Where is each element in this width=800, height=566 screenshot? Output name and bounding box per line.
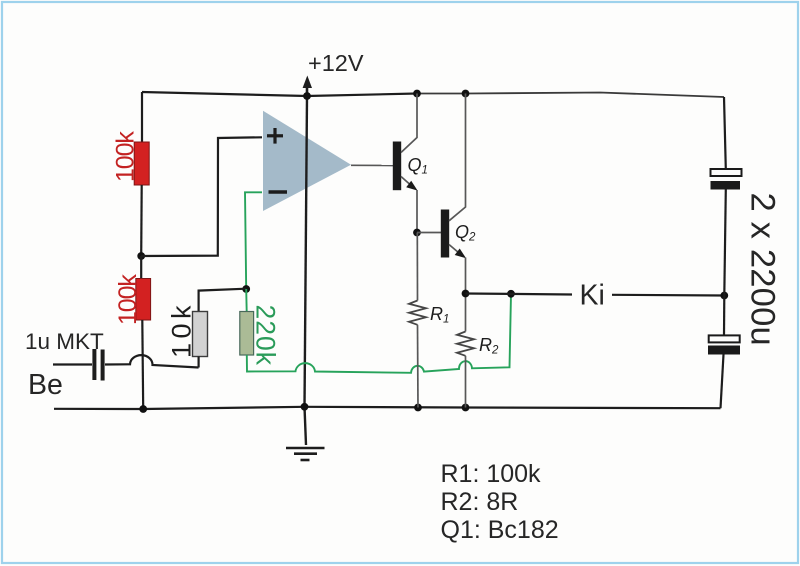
svg-text:220k: 220k	[251, 305, 281, 366]
resistor R2 zigzag	[457, 332, 474, 356]
op-amp U1	[263, 111, 351, 211]
wire: cap C1 to mid node	[724, 190, 726, 296]
ground	[286, 448, 325, 460]
node: bottom rail / ground	[301, 403, 309, 411]
node: junction between 100k resistors	[137, 252, 145, 260]
wire: left vertical from rail to R100k#1	[141, 92, 143, 142]
wire: Q2 base	[417, 232, 441, 234]
svg-text:R1: R1	[430, 304, 449, 326]
wire: R2 bottom lead	[465, 356, 467, 408]
resistor 100k (lower) body	[136, 279, 151, 321]
wire: R1 bottom lead	[417, 325, 420, 408]
wire: green 220k bottom, hops over grounds, up to Ki node	[247, 294, 511, 373]
wire: green node A to 220k top	[245, 289, 248, 312]
wire: junction down to R100k#2	[140, 256, 142, 279]
svg-text:Q2: Q2	[455, 222, 476, 244]
op-amp - sign	[269, 190, 288, 193]
resistor 220k body	[240, 312, 254, 356]
wire: top-right corner down to cap C1	[724, 97, 726, 169]
svg-text:R2: R2	[479, 335, 499, 357]
node: green wire junction	[507, 290, 515, 298]
svg-text:10k: 10k	[167, 301, 197, 358]
svg-text:R1: 100k: R1: 100k	[441, 460, 542, 488]
wire: cap C2 to bottom rail	[721, 355, 724, 409]
capacitor 2200u (lower)	[708, 335, 740, 354]
transistor Q2	[441, 94, 466, 294]
node: bottom rail / R2	[462, 404, 470, 412]
node: Q2 emitter / R2 / Ki	[462, 290, 470, 298]
label parts list	[441, 460, 559, 544]
power +12V arrow	[303, 76, 312, 97]
resistor R1 zigzag	[409, 301, 426, 325]
wire: top +12V rail	[142, 92, 417, 96]
wire: mid node to cap C2	[723, 296, 725, 336]
svg-text:+12V: +12V	[308, 50, 364, 76]
svg-text:Ki: Ki	[580, 280, 605, 312]
node: rail / Q1 collector	[413, 90, 421, 98]
wire: R100k#2 bottom to bottom rail	[141, 320, 144, 409]
svg-text:1u MKT: 1u MKT	[25, 329, 104, 354]
svg-text:Q1: Bc182: Q1: Bc182	[441, 516, 559, 544]
svg-text:100k: 100k	[114, 274, 142, 325]
capacitor 2200u (upper)	[711, 169, 742, 190]
node: between right caps	[720, 292, 728, 300]
node: rail / +12V	[303, 92, 311, 100]
node: bottom rail / 100k	[139, 405, 147, 413]
wire: R2 top lead	[465, 294, 467, 332]
wire: left input stub to cap	[53, 363, 92, 365]
wire: node row to Ki	[466, 294, 573, 295]
wire: green feedback from - input down to node A	[245, 192, 262, 289]
svg-text:100k: 100k	[112, 131, 140, 182]
svg-text:Be: Be	[28, 369, 63, 401]
wire: junction to op-amp + input	[141, 137, 262, 256]
transistor Q1	[393, 94, 418, 233]
wire: op-amp output to Q1 base	[351, 164, 393, 166]
wire: bottom rail	[54, 407, 721, 409]
wire: 10k top lead to node A	[199, 289, 247, 312]
wire: R100k#1 bottom to junction	[140, 185, 143, 256]
wire: cap to 10k bottom with hop over 100k wire	[105, 355, 199, 367]
wire: Ki to right cap node	[612, 294, 724, 297]
node: bottom rail / R1	[414, 404, 422, 412]
node: rail / Q2 collector	[462, 90, 470, 98]
capacitor 1u MKT	[94, 349, 102, 381]
resistor 100k (upper) body	[134, 142, 149, 185]
op-amp + sign	[267, 128, 283, 144]
svg-text:2 x 2200u: 2 x 2200u	[744, 193, 782, 346]
wire: 10k bottom lead	[198, 357, 200, 368]
svg-text:Q1: Q1	[408, 155, 428, 177]
svg-text:R2: 8R: R2: 8R	[441, 488, 519, 516]
node A: junction green/10k	[242, 285, 250, 293]
wire: Q1 emitter to R1	[416, 233, 418, 301]
wire: power line through op-amp down to ground	[305, 96, 308, 407]
node: Q1 emitter / Q2 base	[413, 229, 421, 237]
resistor 10k body	[193, 312, 208, 357]
